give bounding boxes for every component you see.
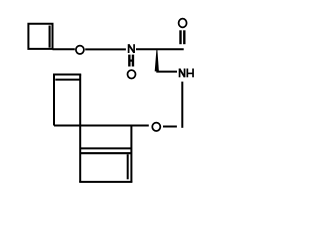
bond O3 to ring / ring top edge [54, 125, 149, 127]
bond N to C2 to CHO [136, 48, 184, 50]
ring A left side [53, 74, 55, 126]
N=O double bond [128, 55, 130, 67]
ring A top edge [53, 74, 81, 76]
ring BC bottom edge [79, 181, 132, 183]
aldehyde C=O double bond [179, 30, 181, 44]
atom O (aldehyde oxygen) [179, 19, 187, 28]
bond CH2 to NH [156, 71, 177, 73]
atom O2 (N-oxide oxygen) [128, 70, 136, 78]
atom N (N-oxide nitrogen) [129, 44, 135, 53]
atom N of NH (amine) [180, 69, 185, 78]
ring B inner double line [80, 147, 131, 149]
fused rings shared vertical [79, 75, 81, 182]
bond NH down to CH2 [181, 82, 183, 128]
atom H of NH [187, 69, 193, 78]
bond CH2 to O3 [163, 126, 177, 128]
ring A top inner double line [55, 79, 80, 81]
ring C right inner double line [127, 154, 129, 179]
cyclobutene double bond inner line [49, 26, 51, 48]
ring BC right side [130, 126, 132, 182]
cyclobutene ring [28, 24, 52, 49]
atom O1 (ether oxygen) [76, 46, 84, 54]
bond O1 to N [85, 48, 126, 50]
atom O3 (ether oxygen to ring) [152, 123, 160, 131]
ring B bottom fused edge [80, 152, 131, 154]
bond cyclobutene to O1 [53, 48, 75, 50]
stereo wedge bond [155, 50, 159, 71]
